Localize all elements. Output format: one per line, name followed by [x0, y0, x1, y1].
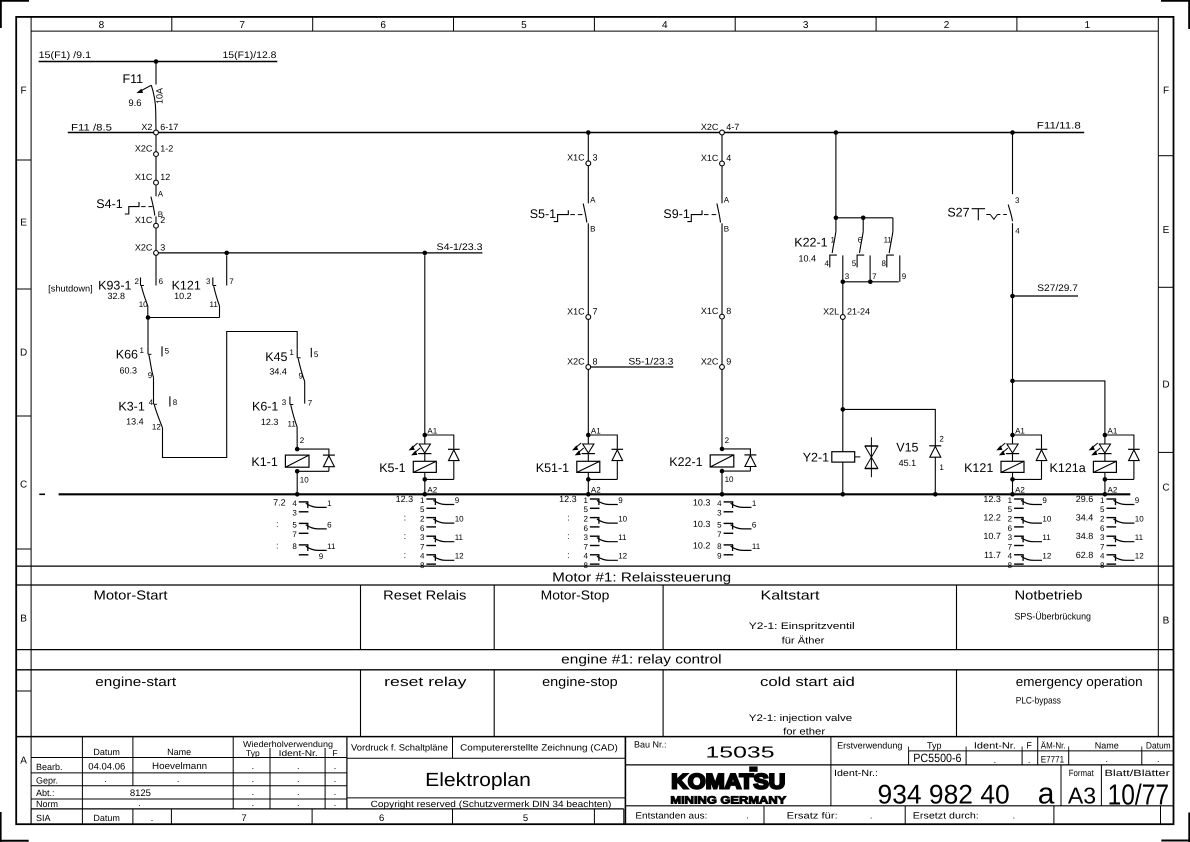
- svg-text:Hoevelmann: Hoevelmann: [152, 761, 207, 772]
- svg-text:X2L: X2L: [823, 306, 839, 316]
- svg-text:10.3: 10.3: [693, 497, 711, 507]
- svg-text:4: 4: [583, 552, 588, 561]
- svg-text:Bau Nr.:: Bau Nr.:: [634, 740, 667, 750]
- svg-text:S4-1/23.3: S4-1/23.3: [437, 242, 483, 253]
- svg-text:9: 9: [726, 356, 731, 366]
- svg-text:Ident-Nr.: Ident-Nr.: [974, 741, 1016, 751]
- wire X1C 4 to S9-1: [721, 166, 723, 203]
- svg-text:6: 6: [159, 277, 164, 286]
- svg-text:Ersatz für:: Ersatz für:: [787, 810, 838, 820]
- svg-text:K66: K66: [116, 348, 138, 362]
- svg-text:Entstanden aus:: Entstanden aus:: [635, 810, 707, 820]
- svg-text:reset relay: reset relay: [384, 674, 467, 689]
- svg-text:B: B: [724, 224, 729, 233]
- svg-text:10: 10: [1135, 515, 1144, 524]
- svg-text:34.8: 34.8: [1076, 531, 1094, 541]
- terminal X1C 3: [567, 153, 597, 166]
- svg-text:E: E: [20, 218, 27, 229]
- svg-text:8: 8: [726, 306, 731, 316]
- svg-text:K6-1: K6-1: [252, 400, 278, 414]
- svg-text:C: C: [20, 480, 27, 491]
- svg-text:9: 9: [319, 552, 324, 561]
- wire K3-1 loop to K45: [163, 332, 298, 458]
- svg-text:1: 1: [939, 463, 944, 472]
- svg-text:A1: A1: [427, 426, 437, 435]
- terminal X1C 12: [135, 172, 170, 185]
- terminal X2C 9: [701, 356, 731, 369]
- svg-text:6: 6: [420, 524, 425, 533]
- svg-text:9: 9: [717, 552, 722, 561]
- svg-text:PC5500-6: PC5500-6: [913, 751, 961, 765]
- svg-text:X1C: X1C: [135, 172, 153, 182]
- svg-text:2: 2: [944, 20, 950, 31]
- contact K121 (row E): [172, 277, 219, 309]
- junction Y2-1/bus: [841, 492, 846, 497]
- svg-text:Ident-Nr.:: Ident-Nr.:: [834, 768, 878, 778]
- svg-text:K1-1: K1-1: [251, 455, 277, 469]
- svg-text:.: .: [334, 798, 337, 808]
- svg-text:D: D: [1162, 380, 1169, 391]
- terminal X2L 21-24: [823, 306, 870, 319]
- svg-text:04.04.06: 04.04.06: [88, 762, 125, 773]
- wire X2C to X1C: [155, 157, 157, 181]
- title block left header texts: [93, 739, 337, 758]
- svg-text:15035: 15035: [706, 745, 775, 762]
- svg-text:45.1: 45.1: [899, 458, 917, 468]
- svg-text:Notbetrieb: Notbetrieb: [1015, 588, 1083, 603]
- svg-text:Gepr.: Gepr.: [36, 775, 58, 785]
- junction K121a/bus: [1103, 492, 1108, 497]
- svg-text:3: 3: [717, 509, 722, 518]
- svg-text:4: 4: [292, 499, 297, 508]
- svg-text:29.6: 29.6: [1076, 494, 1094, 504]
- title block center Vordruck/Elektroplan: [347, 737, 626, 809]
- svg-text:Typ: Typ: [927, 741, 942, 751]
- svg-text:5: 5: [717, 520, 722, 529]
- stub pin5 of K66: [162, 346, 170, 356]
- junction Y2-1/V15: [841, 407, 846, 412]
- terminal X1C 7: [567, 306, 597, 319]
- svg-text:8: 8: [881, 259, 886, 268]
- svg-text:Copyright reserved (Schutzverm: Copyright reserved (Schutzvermerk DIN 34…: [371, 799, 612, 809]
- svg-text:7: 7: [1008, 542, 1013, 551]
- svg-text:K22-1: K22-1: [669, 455, 702, 469]
- svg-text:A1: A1: [1108, 426, 1118, 435]
- svg-text:7: 7: [229, 277, 234, 286]
- junction top bus / F11: [154, 59, 159, 64]
- contact K22-1 aux 3 (pins 11-8-9): [881, 218, 906, 282]
- svg-text:C: C: [1162, 483, 1169, 494]
- svg-text:12: 12: [152, 422, 161, 431]
- svg-text:4: 4: [1008, 552, 1013, 561]
- relay K22-1 coil with suppressor diode: [669, 436, 756, 495]
- svg-text:A: A: [590, 195, 596, 204]
- wire S4-1 B to X1C 2: [155, 216, 157, 223]
- svg-text:.: .: [297, 798, 300, 808]
- svg-text:S5-1/23.3: S5-1/23.3: [628, 356, 673, 367]
- title block left grid: [31, 737, 624, 809]
- svg-text::: :: [567, 550, 570, 560]
- svg-text:3: 3: [206, 277, 211, 286]
- svg-text:13.4: 13.4: [126, 417, 144, 427]
- svg-text:Computererstellte Zeichnung (C: Computererstellte Zeichnung (CAD): [460, 743, 618, 753]
- svg-text:Format: Format: [1069, 768, 1094, 778]
- svg-text:3: 3: [292, 509, 297, 518]
- svg-text:X1C: X1C: [567, 306, 585, 316]
- svg-text:F11/11.8: F11/11.8: [1037, 120, 1081, 131]
- svg-text:11: 11: [455, 533, 464, 542]
- junction V15/bus: [933, 492, 938, 497]
- svg-text:5: 5: [852, 259, 857, 268]
- svg-text:Vordruck f. Schaltpläne: Vordruck f. Schaltpläne: [351, 743, 448, 753]
- switch S5-1: [530, 195, 596, 233]
- svg-text:4: 4: [149, 398, 154, 407]
- svg-text:1-2: 1-2: [160, 144, 173, 154]
- svg-text:1: 1: [420, 496, 425, 505]
- svg-text:KOMATSU: KOMATSU: [671, 771, 785, 794]
- wire X1C 12 to S4-1: [155, 185, 157, 196]
- junction K121/K121a: [1010, 379, 1015, 384]
- svg-text:SIA: SIA: [36, 813, 51, 823]
- svg-text:32.8: 32.8: [107, 291, 125, 301]
- svg-text:Abt.:: Abt.:: [36, 788, 55, 798]
- svg-text:Blatt/Blätter: Blatt/Blätter: [1105, 768, 1170, 778]
- svg-text:9: 9: [902, 272, 907, 281]
- contact table K1-1: [273, 497, 336, 561]
- cell Notbetrieb: [1015, 588, 1092, 623]
- wire S27 to S27/29.7 junction: [1012, 223, 1014, 296]
- svg-text:6: 6: [752, 520, 757, 529]
- svg-text:12.3: 12.3: [261, 417, 279, 427]
- wire S9-1 B to X1C 8: [721, 223, 723, 314]
- solenoid valve Y2-1: [803, 409, 855, 494]
- svg-text:11: 11: [209, 300, 218, 309]
- wire X2C 8 to K51-1: [587, 369, 589, 435]
- svg-text:1: 1: [289, 348, 294, 357]
- junction K22-1/bus: [720, 492, 725, 497]
- svg-text:Ersetzt durch:: Ersetzt durch:: [913, 810, 979, 820]
- svg-text:F: F: [1163, 86, 1169, 97]
- band separators: [16, 566, 1173, 737]
- svg-text:[shutdown]: [shutdown]: [48, 283, 93, 293]
- svg-text:34.4: 34.4: [1076, 513, 1094, 523]
- svg-text:Y2-1: Y2-1: [803, 450, 829, 464]
- svg-text::: :: [404, 550, 407, 560]
- svg-text:5: 5: [1100, 505, 1105, 514]
- svg-text:Motor-Start: Motor-Start: [94, 588, 168, 603]
- wire K45 pin9 to K6-1 pin7: [305, 382, 313, 408]
- svg-text:A1: A1: [1015, 426, 1025, 435]
- stub pin5 of K45: [311, 348, 319, 359]
- wire X1C 7 to X2C 8: [587, 319, 589, 364]
- svg-text:6: 6: [583, 524, 588, 533]
- wire bus to K22-1 contact block: [835, 133, 837, 218]
- svg-text:X2C: X2C: [567, 356, 585, 366]
- svg-text:.: .: [1157, 754, 1160, 764]
- svg-text:1: 1: [139, 346, 144, 355]
- svg-text:11: 11: [1042, 533, 1051, 542]
- svg-text:12: 12: [618, 552, 627, 561]
- title block row Norm: [36, 798, 336, 809]
- svg-text:10: 10: [300, 475, 309, 484]
- contact K6-1: [252, 398, 296, 429]
- svg-text:10A: 10A: [155, 88, 165, 104]
- contact table K51-1: [559, 494, 627, 570]
- svg-text:A: A: [158, 189, 164, 198]
- svg-text:6: 6: [380, 20, 386, 31]
- svg-text:8: 8: [593, 356, 598, 366]
- svg-text:ÄM-Nr.: ÄM-Nr.: [1041, 740, 1066, 750]
- svg-text:7: 7: [717, 530, 722, 539]
- contact K66: [116, 346, 153, 380]
- svg-text:934 982 40: 934 982 40: [878, 779, 1010, 809]
- svg-text:.: .: [104, 774, 107, 784]
- junction bus/K22-1 contacts branch: [834, 130, 839, 135]
- svg-text:Name: Name: [167, 747, 191, 757]
- svg-text:A3: A3: [1068, 782, 1096, 808]
- svg-text:.: .: [177, 774, 180, 784]
- svg-text:B: B: [1163, 616, 1170, 627]
- svg-text:6: 6: [379, 813, 384, 824]
- svg-text:11: 11: [884, 235, 893, 244]
- switch S4-1: [96, 189, 164, 219]
- svg-text:D: D: [20, 348, 27, 359]
- svg-text:8: 8: [292, 542, 297, 551]
- contact K3-1: [118, 398, 161, 431]
- svg-text:2: 2: [135, 277, 140, 286]
- wire 15(F1) top bus: [39, 50, 278, 61]
- wire X2C 4-7 to X1C 4: [721, 135, 723, 161]
- svg-text:K22-1: K22-1: [794, 236, 827, 250]
- wire K93-1/K121 junction: [148, 317, 220, 319]
- junction bus/S27 branch: [1010, 130, 1015, 135]
- svg-text:6: 6: [1008, 524, 1013, 533]
- svg-text:.: .: [994, 755, 997, 765]
- svg-text:Y2-1: Einspritzventil: Y2-1: Einspritzventil: [749, 621, 855, 632]
- Komatsu logo: [670, 766, 786, 806]
- svg-text:X1C: X1C: [135, 215, 153, 225]
- bottom band left cells SIA: [31, 809, 624, 824]
- svg-text:F: F: [21, 86, 27, 97]
- wire X1C 3 to S5-1: [587, 166, 589, 204]
- svg-text:34.4: 34.4: [269, 367, 287, 377]
- svg-text:F: F: [1026, 741, 1032, 751]
- svg-text:12.2: 12.2: [983, 513, 1001, 523]
- svg-text:Kaltstart: Kaltstart: [761, 588, 820, 603]
- wire to K121 branch junction: [1012, 296, 1014, 381]
- stub pin7 from X2C3 bus: [227, 255, 235, 286]
- svg-text:.: .: [252, 774, 255, 784]
- wire junction to K121a: [1013, 381, 1105, 435]
- junction K51-1/bus: [586, 492, 591, 497]
- contact block top rail: [836, 217, 893, 219]
- stub pin6 from X2C3 bus: [156, 255, 164, 286]
- wire X2C 9 to K22-1 coil: [721, 369, 723, 449]
- svg-text:11: 11: [1135, 533, 1144, 542]
- svg-text:7: 7: [241, 813, 246, 824]
- label K22-1 contact block: [794, 236, 827, 264]
- svg-text:Name: Name: [1095, 741, 1119, 751]
- junction K5-1/bus: [423, 492, 428, 497]
- main horizontal bus F11/8.5 to F11/11.8: [68, 120, 1084, 133]
- svg-text:10: 10: [455, 515, 464, 524]
- field Typ value PC5500-6: [913, 751, 1159, 766]
- svg-text:für Äther: für Äther: [782, 636, 825, 647]
- svg-text:10: 10: [618, 515, 627, 524]
- svg-text:5: 5: [521, 20, 527, 31]
- svg-text:1: 1: [830, 235, 835, 244]
- svg-text:6: 6: [1100, 524, 1105, 533]
- svg-text:6-17: 6-17: [160, 122, 178, 132]
- relay K121a with LED: [1050, 426, 1140, 494]
- svg-text:7: 7: [583, 542, 588, 551]
- svg-text:60.3: 60.3: [119, 366, 137, 376]
- minus polarity mark: [39, 493, 45, 495]
- svg-text:4: 4: [824, 259, 829, 268]
- field Ident-Nr drawing number: [831, 765, 1061, 811]
- svg-text:engine-start: engine-start: [95, 674, 176, 689]
- svg-text:3: 3: [1100, 533, 1105, 542]
- svg-text:12.3: 12.3: [983, 494, 1001, 504]
- svg-text:2: 2: [1008, 515, 1013, 524]
- svg-text:15(F1)/12.8: 15(F1)/12.8: [223, 50, 277, 61]
- svg-text:engine #1: relay control: engine #1: relay control: [561, 652, 722, 667]
- svg-text:.: .: [138, 798, 141, 808]
- contact table K121a: [1076, 494, 1144, 570]
- svg-text:cold start aid: cold start aid: [760, 674, 855, 689]
- svg-text:9.6: 9.6: [128, 98, 141, 109]
- contact table K121: [983, 494, 1051, 570]
- svg-text:6: 6: [327, 520, 332, 529]
- svg-text:5: 5: [314, 350, 319, 359]
- terminal X2C 1-2: [135, 144, 173, 157]
- fuse F11: [122, 62, 164, 131]
- svg-text:3: 3: [593, 153, 598, 163]
- cell Kaltstart: [749, 588, 855, 647]
- svg-text:X2C: X2C: [135, 144, 153, 154]
- title block row Gepr: [36, 774, 336, 785]
- svg-text:4: 4: [420, 552, 425, 561]
- svg-text:.: .: [334, 761, 337, 771]
- svg-text:9: 9: [1135, 496, 1140, 505]
- svg-text:S9-1: S9-1: [663, 207, 689, 221]
- contact K93-1: [48, 277, 148, 309]
- svg-text:X2: X2: [141, 122, 152, 132]
- svg-text:12: 12: [1042, 552, 1051, 561]
- diode V15: [896, 435, 944, 495]
- wire X1C 2 to X2C 3: [155, 228, 157, 250]
- contact K22-1 aux 2 (pins 6-5-7): [852, 218, 877, 282]
- svg-text:F: F: [332, 748, 337, 758]
- svg-text:15(F1) /9.1: 15(F1) /9.1: [39, 50, 92, 61]
- svg-text:62.8: 62.8: [1076, 550, 1094, 560]
- junction dot K93-1 output: [146, 315, 151, 320]
- svg-text:10.7: 10.7: [983, 531, 1001, 541]
- svg-text:MINING GERMANY: MINING GERMANY: [670, 795, 786, 807]
- svg-text:A1: A1: [591, 426, 601, 435]
- svg-text:S4-1: S4-1: [96, 197, 122, 211]
- svg-text:12.3: 12.3: [396, 494, 414, 504]
- svg-text:X1C: X1C: [701, 153, 719, 163]
- svg-text:Typ: Typ: [246, 748, 260, 758]
- svg-text:4-7: 4-7: [726, 122, 739, 132]
- svg-text::: :: [276, 540, 279, 550]
- wire K6-1 to K1-1 coil: [297, 427, 305, 449]
- row letter bands: [16, 86, 1173, 767]
- svg-text:1: 1: [583, 496, 588, 505]
- relay K121 with LED: [964, 426, 1047, 494]
- svg-text:10.2: 10.2: [693, 540, 711, 550]
- svg-text:.: .: [297, 787, 300, 797]
- svg-text:3: 3: [845, 272, 850, 281]
- svg-text:3: 3: [583, 533, 588, 542]
- svg-text:10/77: 10/77: [1108, 780, 1169, 812]
- svg-text:.: .: [252, 787, 255, 797]
- svg-text:E7771: E7771: [1041, 755, 1064, 766]
- svg-text:1: 1: [1100, 496, 1105, 505]
- bottom supply bus: [59, 493, 1131, 495]
- svg-text:engine-stop: engine-stop: [542, 674, 618, 689]
- svg-text:.: .: [297, 774, 300, 784]
- wire S5-1 B to X1C 7: [587, 223, 589, 314]
- wire stub S27/29.7: [1013, 283, 1079, 296]
- svg-text::: :: [404, 531, 407, 541]
- svg-text:2: 2: [583, 515, 588, 524]
- band cell dividers: [361, 585, 957, 737]
- wire junction to V15 branch: [843, 409, 936, 445]
- svg-text:12: 12: [455, 552, 464, 561]
- svg-text:10.3: 10.3: [693, 519, 711, 529]
- cell emergency operation: [1016, 674, 1143, 707]
- title block right grid: [625, 737, 1173, 825]
- svg-text:K121a: K121a: [1050, 461, 1086, 475]
- svg-text:12.3: 12.3: [559, 494, 577, 504]
- contact table K22-1: [693, 497, 761, 560]
- terminal X1C 4: [701, 153, 731, 166]
- switch S27: [947, 196, 1020, 236]
- terminal X2C 3: [135, 242, 165, 255]
- wire block to X2L: [842, 282, 844, 315]
- svg-text:4: 4: [1015, 227, 1020, 236]
- field Bau Nr: [634, 740, 775, 762]
- svg-text:3: 3: [160, 242, 165, 252]
- svg-text:1: 1: [1008, 496, 1013, 505]
- title block row Abt: [36, 787, 336, 799]
- svg-text:7: 7: [420, 542, 425, 551]
- field Erstverwendung header: [837, 740, 1171, 750]
- svg-text:10.2: 10.2: [174, 291, 192, 301]
- svg-text:3: 3: [803, 20, 809, 31]
- svg-text:X1C: X1C: [567, 153, 585, 163]
- svg-text:11.7: 11.7: [984, 550, 1001, 560]
- bottom band right cells: [635, 806, 1160, 824]
- svg-text:9: 9: [1042, 496, 1047, 505]
- svg-text:K45: K45: [265, 350, 287, 364]
- wire bus to S27: [1012, 133, 1014, 195]
- terminal X1C 2: [135, 215, 165, 228]
- junction X2C3 bus / K121 branch: [224, 251, 229, 256]
- svg-text:.: .: [252, 761, 255, 771]
- contact K22-1 aux 1 (pins 1-4-3): [824, 218, 849, 282]
- svg-text:2: 2: [725, 436, 730, 445]
- svg-text:Motor #1: Relaissteuerung: Motor #1: Relaissteuerung: [552, 570, 731, 585]
- svg-text:5: 5: [420, 505, 425, 514]
- svg-text:9: 9: [455, 496, 460, 505]
- svg-text:emergency operation: emergency operation: [1016, 674, 1143, 689]
- svg-text:5: 5: [583, 505, 588, 514]
- svg-text:11: 11: [752, 542, 761, 551]
- svg-text:F11 /8.5: F11 /8.5: [71, 122, 112, 133]
